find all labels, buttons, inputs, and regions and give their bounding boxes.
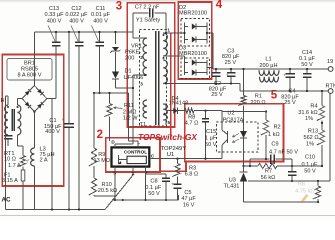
svg-text:C15: C15	[206, 129, 216, 135]
svg-text:25 V: 25 V	[211, 92, 223, 98]
svg-text:R7: R7	[265, 168, 272, 174]
svg-text:25 V: 25 V	[284, 100, 296, 106]
svg-text:0.01 µF: 0.01 µF	[91, 12, 111, 18]
svg-text:5: 5	[168, 120, 171, 125]
svg-text:562 Ω: 562 Ω	[303, 135, 318, 141]
svg-text:C5: C5	[184, 190, 191, 196]
svg-text:200: 200	[125, 56, 134, 62]
svg-text:C12: C12	[71, 6, 81, 12]
svg-text:TL431: TL431	[224, 183, 240, 189]
svg-text:RTN: RTN	[326, 84, 335, 90]
svg-text:C10: C10	[305, 155, 315, 161]
svg-text:+: +	[62, 117, 65, 122]
svg-text:CONTROL: CONTROL	[124, 149, 147, 154]
svg-text:R3: R3	[189, 165, 196, 171]
svg-text:T1: T1	[140, 122, 147, 128]
svg-text:R2: R2	[274, 125, 281, 131]
svg-text:50 V: 50 V	[301, 62, 313, 68]
svg-text:R6: R6	[298, 182, 305, 188]
svg-text:C11: C11	[96, 6, 106, 12]
svg-text:1%: 1%	[305, 116, 313, 122]
svg-text:3.15 A: 3.15 A	[2, 178, 18, 184]
svg-text:13 MΩ: 13 MΩ	[93, 158, 110, 164]
svg-text:0.33 µF: 0.33 µF	[44, 12, 64, 18]
svg-text:200 µH: 200 µH	[259, 63, 277, 69]
svg-text:+: +	[283, 73, 286, 78]
svg-text:400 V: 400 V	[93, 19, 108, 25]
svg-text:4.7 Ω: 4.7 Ω	[185, 121, 199, 127]
svg-text:R11: R11	[124, 103, 134, 109]
svg-text:10 Ω: 10 Ω	[4, 157, 16, 163]
svg-text:47 µF: 47 µF	[181, 196, 196, 202]
svg-text:C7 2.2 nF: C7 2.2 nF	[135, 4, 160, 10]
svg-text:8 A 600 V: 8 A 600 V	[18, 73, 42, 79]
svg-text:+: +	[211, 73, 214, 78]
svg-text:1.7 A: 1.7 A	[8, 163, 21, 169]
svg-text:2 A: 2 A	[40, 158, 48, 164]
svg-text:4.7 nF 50 V: 4.7 nF 50 V	[269, 149, 298, 155]
svg-text:R13: R13	[308, 129, 318, 135]
svg-text:1 µF: 1 µF	[205, 136, 217, 142]
svg-text:3: 3	[116, 1, 122, 13]
svg-text:t°: t°	[27, 159, 30, 164]
svg-text:16 V: 16 V	[183, 202, 195, 208]
svg-text:4.75 kΩ: 4.75 kΩ	[295, 189, 314, 195]
svg-text:4: 4	[216, 0, 223, 11]
svg-text:AC: AC	[1, 197, 11, 204]
svg-text:2: 2	[140, 55, 143, 60]
svg-text:C8: C8	[150, 179, 157, 185]
svg-text:PC817A: PC817A	[223, 117, 244, 123]
svg-text:400 V: 400 V	[47, 19, 62, 25]
svg-text:+: +	[226, 73, 229, 78]
svg-text:19 V: 19 V	[327, 59, 335, 65]
svg-text:TOPSwitch-GX: TOPSwitch-GX	[138, 132, 197, 142]
svg-text:25 V: 25 V	[225, 60, 237, 66]
svg-text:31.6 kΩ: 31.6 kΩ	[298, 110, 317, 116]
svg-text:TOP249Y: TOP249Y	[161, 146, 187, 152]
svg-text:3: 3	[140, 82, 143, 87]
svg-text:U1: U1	[167, 152, 175, 158]
svg-text:1: 1	[167, 28, 170, 33]
svg-text:2: 2	[97, 129, 103, 141]
svg-text:0.1 µF: 0.1 µF	[302, 162, 319, 168]
svg-text:1%: 1%	[306, 142, 314, 148]
svg-text:MBR20100: MBR20100	[179, 11, 207, 17]
svg-text:400 V: 400 V	[45, 129, 60, 135]
svg-text:400 V: 400 V	[69, 19, 84, 25]
svg-text:1 kΩ: 1 kΩ	[268, 132, 280, 138]
svg-text:1/2 W: 1/2 W	[123, 115, 138, 121]
svg-text:+: +	[171, 181, 174, 186]
svg-text:D1: D1	[125, 69, 132, 75]
svg-text:Y1 Safety: Y1 Safety	[136, 18, 160, 24]
svg-text:C13: C13	[49, 6, 59, 12]
svg-text:50 V: 50 V	[205, 142, 217, 148]
svg-text:220 Ω: 220 Ω	[251, 100, 266, 106]
svg-text:C9: C9	[271, 141, 278, 147]
svg-text:H: H	[1, 98, 5, 104]
svg-text:L1: L1	[265, 57, 271, 63]
svg-text:20.5 kΩ: 20.5 kΩ	[98, 188, 117, 194]
svg-text:R4: R4	[310, 104, 317, 110]
svg-text:50 V: 50 V	[304, 169, 316, 175]
svg-text:R1: R1	[255, 94, 262, 100]
svg-text:6.8 Ω: 6.8 Ω	[185, 171, 199, 177]
svg-text:1N4148: 1N4148	[169, 101, 189, 107]
svg-text:R10: R10	[101, 182, 111, 188]
svg-text:56 kΩ: 56 kΩ	[261, 175, 276, 181]
svg-text:0.022 µF: 0.022 µF	[65, 12, 88, 18]
svg-text:50 V: 50 V	[148, 191, 160, 197]
